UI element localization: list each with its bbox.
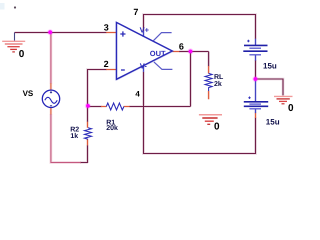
svg-text:VS: VS	[23, 89, 34, 98]
svg-text:1k: 1k	[70, 132, 78, 140]
svg-text:2k: 2k	[214, 80, 222, 88]
svg-text:7: 7	[133, 7, 138, 17]
svg-text:RL: RL	[214, 74, 224, 81]
svg-text:0: 0	[214, 122, 220, 133]
svg-text:V+: V+	[140, 25, 150, 34]
svg-text:0: 0	[19, 49, 25, 60]
svg-text:20k: 20k	[106, 124, 118, 132]
svg-text:0: 0	[288, 103, 294, 114]
svg-text:2: 2	[104, 59, 109, 69]
svg-text:3: 3	[104, 22, 109, 32]
svg-text:V-: V-	[140, 61, 148, 70]
svg-text:4: 4	[135, 90, 140, 99]
svg-text:15u: 15u	[263, 61, 277, 70]
svg-text:15u: 15u	[266, 117, 280, 126]
svg-text:OUT: OUT	[150, 49, 166, 58]
svg-text:6: 6	[179, 41, 184, 51]
